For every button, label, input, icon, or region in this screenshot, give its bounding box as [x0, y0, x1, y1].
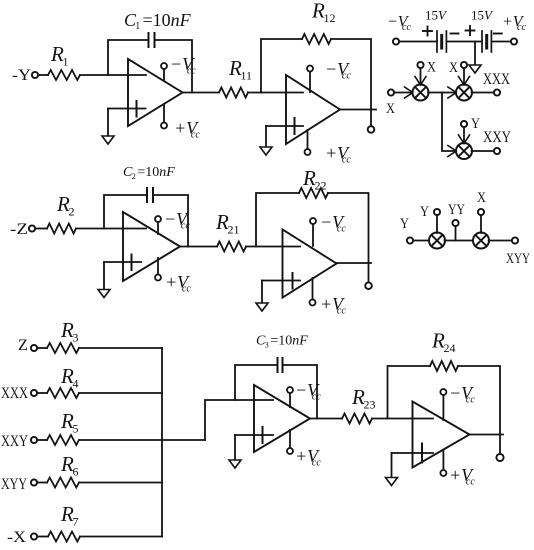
capacitor C1	[148, 33, 150, 47]
svg-text:-X: -X	[7, 529, 26, 546]
svg-text:cc: cc	[402, 22, 411, 33]
wire C3 feedback right	[283, 365, 317, 419]
svg-text:cc: cc	[191, 130, 200, 141]
wire M1 top	[420, 68, 422, 83]
svg-text:5: 5	[73, 422, 79, 436]
wire C2 feedback right	[153, 195, 188, 247]
op-amp U6	[413, 402, 470, 468]
terminal -Vcc supply	[393, 38, 399, 44]
op-amp U2 plus input	[266, 125, 303, 127]
svg-text:=10: =10	[137, 165, 159, 180]
resistor R23	[342, 414, 372, 424]
resistor R7	[48, 532, 80, 542]
wire -Z to R2	[35, 228, 47, 230]
arrow into M2 left	[448, 87, 457, 93]
svg-text:15V: 15V	[425, 8, 448, 23]
wire summing bus	[161, 348, 163, 537]
label - B1	[451, 33, 459, 35]
svg-text:cc: cc	[312, 458, 321, 469]
multiplier M2	[456, 85, 472, 101]
wire U4 output	[337, 262, 372, 264]
svg-text:15V: 15V	[471, 8, 494, 23]
multiplier M3	[456, 143, 472, 159]
ground U1	[107, 109, 109, 137]
terminal M3 top	[461, 121, 467, 127]
resistor R2	[47, 224, 76, 234]
multiplier M5	[473, 233, 489, 249]
power pin +Vcc U6	[442, 450, 444, 470]
wire YY stub	[455, 226, 457, 240]
power pin +Vcc U3	[157, 258, 159, 274]
svg-text:nF: nF	[159, 165, 175, 180]
terminal M2 top	[461, 62, 467, 68]
wire C1 feedback left	[108, 40, 148, 75]
svg-text:Z: Z	[18, 337, 28, 354]
svg-text:cc: cc	[181, 221, 190, 232]
terminal XYY	[512, 237, 518, 243]
svg-text:cc: cc	[342, 155, 351, 166]
wire R7 to bus	[80, 536, 162, 538]
label + B1	[423, 30, 432, 32]
resistor R6	[47, 478, 79, 488]
terminal XXY input	[31, 437, 37, 443]
op-amp U6 plus input	[392, 452, 434, 454]
svg-text:7: 7	[73, 515, 79, 529]
svg-text:cc: cc	[187, 66, 196, 77]
svg-text:XXY: XXY	[483, 129, 511, 146]
svg-text:12: 12	[324, 11, 336, 25]
terminal M4 top	[434, 209, 440, 215]
wire X to M1	[394, 92, 412, 94]
op-amp U5	[254, 385, 310, 452]
wire R22 feedback right	[328, 193, 369, 263]
wire R23 to U6 inverting input	[372, 418, 433, 420]
svg-text:X: X	[427, 60, 436, 76]
svg-text:Y: Y	[471, 116, 480, 132]
svg-text:-Z: -Z	[10, 221, 28, 238]
arrow into M2 top	[459, 77, 465, 86]
svg-text:cc: cc	[182, 284, 191, 295]
wire M5 to XYY terminal	[489, 240, 512, 242]
wire C3 feedback left	[235, 365, 277, 400]
terminal +Vcc supply	[511, 38, 517, 44]
arrow into M3 left	[448, 146, 457, 152]
wire R11 to U2 inverting input	[248, 92, 303, 94]
op-amp U2	[286, 75, 340, 144]
ground supply	[474, 42, 476, 66]
svg-text:X: X	[449, 60, 458, 76]
wire M5 top	[480, 215, 482, 233]
svg-text:1: 1	[63, 55, 69, 69]
ground U2	[265, 126, 267, 147]
terminal U6 output	[499, 435, 501, 454]
svg-text:2: 2	[69, 205, 75, 219]
arrow into M1 left	[405, 87, 414, 93]
wire U6 output	[470, 434, 504, 436]
svg-text:21: 21	[228, 223, 240, 237]
wire C1 feedback right	[155, 40, 192, 93]
ground U6	[391, 453, 393, 478]
svg-text:cc: cc	[312, 392, 321, 403]
multiplier M4	[429, 233, 445, 249]
wire R21 to U4 inverting input	[246, 246, 300, 248]
wire M1-M2 junction down to M3	[442, 93, 456, 152]
wire U5 output to R23	[310, 418, 342, 420]
svg-text:cc: cc	[517, 22, 526, 33]
svg-text:Y: Y	[400, 216, 409, 232]
power pin -Vcc U1	[163, 69, 165, 80]
terminal X input	[388, 89, 394, 95]
svg-text:XYY: XYY	[1, 476, 27, 493]
svg-text:cc: cc	[466, 395, 475, 406]
wire C2 feedback left	[104, 195, 147, 229]
svg-text:X: X	[386, 101, 395, 117]
resistor R3	[47, 343, 79, 353]
wire Z to R3	[37, 347, 47, 349]
svg-text:cc: cc	[342, 71, 351, 82]
wire XYY to R6	[37, 482, 47, 484]
wire R2 to U3 inverting input	[76, 228, 146, 230]
wire R4 to bus	[79, 392, 162, 394]
resistor R21	[217, 242, 246, 252]
wire R24 feedback left	[388, 366, 431, 419]
svg-text:YY: YY	[448, 202, 465, 218]
power pin -Vcc U6	[442, 395, 444, 420]
svg-text:XXX: XXX	[483, 71, 510, 88]
op-amp U4	[283, 230, 337, 298]
terminal XXX	[494, 89, 500, 95]
terminal -Y	[32, 72, 38, 78]
svg-text:-Y: -Y	[12, 67, 31, 84]
wire -Y to R1	[38, 74, 48, 76]
svg-text:XXX: XXX	[1, 385, 28, 402]
svg-text:3: 3	[265, 341, 269, 350]
capacitor C3	[277, 358, 279, 372]
power pin -Vcc U5	[289, 393, 291, 407]
svg-text:=10: =10	[143, 10, 171, 30]
wire -X to R7	[37, 536, 48, 538]
resistor R5	[47, 435, 79, 445]
ground U5	[234, 435, 236, 460]
wire -Vcc to battery B1	[399, 41, 437, 43]
op-amp U3 plus input	[104, 261, 141, 263]
op-amp U5 plus input	[235, 434, 273, 436]
wire M4 to M5	[445, 240, 474, 242]
wire XXX to R4	[37, 392, 47, 394]
power pin +Vcc U2	[307, 130, 309, 149]
op-amp U3	[123, 212, 180, 281]
resistor R4	[47, 388, 79, 398]
svg-text:24: 24	[444, 341, 456, 355]
svg-text:2: 2	[132, 172, 136, 181]
power pin -Vcc U2	[309, 72, 311, 92]
wire M4 top	[436, 215, 438, 233]
svg-text:cc: cc	[337, 224, 346, 235]
capacitor C2	[146, 188, 148, 202]
svg-text:4: 4	[73, 377, 79, 391]
terminal U4 output	[368, 263, 370, 282]
resistor R11	[219, 88, 248, 98]
power pin -Vcc U3	[157, 222, 159, 234]
terminal M5 top	[478, 209, 484, 215]
svg-text:=10: =10	[270, 334, 292, 349]
ground U3	[103, 262, 105, 290]
terminal YY	[452, 220, 458, 226]
svg-text:23: 23	[364, 398, 376, 412]
power pin +Vcc U4	[312, 278, 314, 299]
arrow into M1 top	[415, 77, 421, 86]
op-amp U1	[128, 59, 183, 126]
wire riser to U5	[205, 400, 273, 440]
op-amp U1 plus input	[108, 108, 146, 110]
wire R5 to riser	[79, 439, 205, 441]
wire U1 output to R11	[183, 92, 220, 94]
wire M2 top	[463, 68, 465, 83]
svg-text:nF: nF	[171, 10, 192, 30]
ground U4	[261, 281, 263, 304]
label + B2	[466, 30, 475, 32]
wire B2 to +Vcc	[491, 41, 510, 43]
battery B2	[481, 31, 483, 52]
resistor R24	[430, 361, 458, 371]
svg-text:cc: cc	[337, 306, 346, 317]
terminal U2 output	[370, 110, 372, 127]
wire R6 to bus	[79, 482, 162, 484]
resistor R22	[299, 188, 328, 198]
wire R12 feedback right	[331, 39, 371, 110]
resistor R1	[48, 70, 80, 80]
svg-text:3: 3	[73, 331, 79, 345]
wire R1 to U1 inverting input	[80, 74, 146, 76]
terminal -Z	[29, 225, 35, 231]
terminal Y input	[407, 237, 413, 243]
svg-text:11: 11	[241, 69, 253, 83]
power pin -Vcc U4	[312, 224, 314, 246]
terminal Z	[31, 345, 37, 351]
terminal -X	[31, 533, 37, 539]
svg-text:Y: Y	[420, 204, 429, 220]
wire M1 to M2	[428, 92, 455, 94]
svg-text:X: X	[477, 190, 486, 206]
wire M3 to XXY terminal	[472, 150, 494, 152]
wire M3 top	[463, 127, 465, 142]
op-amp U4 plus input	[262, 280, 300, 282]
svg-text:XYY: XYY	[506, 251, 530, 267]
svg-text:XXY: XXY	[1, 433, 28, 450]
wire R3 to bus	[79, 347, 162, 349]
resistor R12	[302, 34, 331, 44]
terminal M1 top	[417, 62, 423, 68]
wire Y to M4	[413, 240, 429, 242]
arrow into M3 top	[459, 135, 465, 144]
power pin +Vcc U1	[163, 104, 165, 122]
terminal XYY input	[31, 479, 37, 485]
svg-text:nF: nF	[292, 334, 308, 349]
wire U3 output to R21	[180, 246, 217, 248]
label - B2	[494, 33, 502, 35]
svg-text:6: 6	[73, 465, 79, 479]
svg-text:1: 1	[135, 21, 140, 32]
terminal XXX input	[31, 390, 37, 396]
multiplier M1	[413, 85, 429, 101]
terminal XXY	[494, 148, 500, 154]
battery B1	[436, 31, 438, 52]
wire M2 to XXX terminal	[472, 92, 494, 94]
power pin +Vcc U5	[289, 430, 291, 448]
wire R24 feedback right	[458, 366, 500, 435]
wire XXY to R5	[37, 439, 47, 441]
wire B1 to B2	[446, 41, 482, 43]
svg-text:22: 22	[315, 179, 327, 193]
wire R12 feedback left	[261, 39, 302, 93]
wire U2 output	[340, 109, 376, 111]
svg-text:cc: cc	[466, 477, 475, 488]
wire R22 feedback left	[256, 193, 299, 247]
